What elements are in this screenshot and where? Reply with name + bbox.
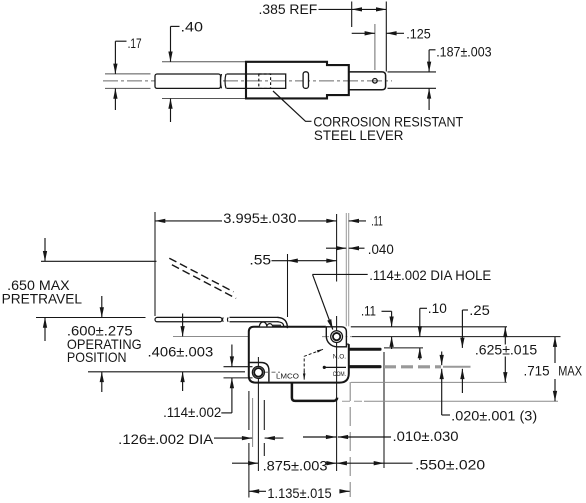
- extension line: hole1 centerline vertical upper: [336, 214, 338, 282]
- lever right segment: [230, 317, 279, 321]
- svg-text:.25: .25: [469, 303, 490, 318]
- svg-text:.126±.002 DIA: .126±.002 DIA: [118, 432, 214, 447]
- dimension .125: [352, 26, 431, 41]
- dimension .10: [420, 301, 447, 360]
- dimension .114±.002 DIA HOLE leader: [313, 268, 492, 330]
- centerline of lever assembly: [103, 80, 392, 82]
- svg-text:.550±.020: .550±.020: [415, 458, 485, 473]
- dimension .020±.001 (3): [442, 352, 538, 424]
- svg-text:.406±.003: .406±.003: [148, 344, 214, 359]
- extension line: terminal1 top right: [384, 347, 423, 349]
- pin hole: [373, 79, 378, 84]
- svg-text:.020±.001 (3): .020±.001 (3): [451, 408, 537, 423]
- svg-text:.55: .55: [249, 253, 271, 268]
- pivot hole (bottom left): [252, 366, 264, 378]
- extension line: pretravel top: [41, 260, 157, 262]
- internal contact dot: [323, 366, 326, 369]
- pin (plunger tip): [349, 72, 386, 90]
- leader corrosion resistant steel lever: [273, 91, 312, 121]
- extension line: body right below (gray dashed): [349, 382, 351, 497]
- terminal2 extension (gray dashed thick): [384, 365, 441, 368]
- terminal COM (bottom hook): [292, 383, 337, 401]
- extension line: hook bottom right (gray): [342, 400, 364, 402]
- lever (operating position) left segment: [155, 317, 222, 321]
- plunger button bumps: [259, 322, 272, 326]
- extension line: hole1 CL left (gray): [173, 336, 249, 338]
- extension line: boss right (gray): [345, 213, 347, 326]
- dimension .40: [162, 19, 245, 122]
- svg-text:.114±.002: .114±.002: [163, 405, 221, 420]
- svg-text:1.135±.015: 1.135±.015: [267, 486, 332, 501]
- svg-text:.11: .11: [361, 304, 376, 319]
- extension line: lever tip vertical: [154, 212, 156, 316]
- hidden square hole (dashed): [259, 74, 271, 88]
- dimension .385 REF: [259, 2, 387, 72]
- svg-text:.625±.015: .625±.015: [475, 343, 538, 358]
- extension line: hole2 centerline vertical: [257, 357, 259, 471]
- crimp rib: [303, 72, 308, 89]
- svg-text:.010±.030: .010±.030: [393, 429, 459, 444]
- svg-text:POSITION: POSITION: [67, 350, 127, 365]
- svg-text:STEEL LEVER: STEEL LEVER: [314, 127, 404, 143]
- svg-text:.17: .17: [128, 36, 142, 51]
- svg-text:3.995±.030: 3.995±.030: [223, 211, 297, 226]
- extension line: body right (gray): [348, 213, 350, 326]
- svg-text:LMCO: LMCO: [276, 374, 300, 381]
- extension line: .126 tangent left (gray): [252, 398, 254, 447]
- top-right mounting boss: [326, 327, 347, 347]
- svg-text:COM.: COM.: [333, 371, 346, 378]
- dimension .11 (top): [349, 213, 383, 228]
- svg-text:PRETRAVEL: PRETRAVEL: [2, 291, 83, 306]
- svg-text:.114±.002 DIA HOLE: .114±.002 DIA HOLE: [369, 268, 491, 283]
- pretravel lever position (dashed): [169, 258, 236, 298]
- dimension 1.135±.015: [249, 486, 350, 501]
- svg-text:.040: .040: [368, 242, 394, 257]
- svg-text:.11: .11: [371, 213, 383, 228]
- extension line: body top right: [351, 326, 507, 328]
- dimension .875±.003: [232, 458, 337, 473]
- pin hole centerline: [374, 24, 376, 70]
- dimension .17: [105, 36, 151, 110]
- dimension .010±.030: [303, 429, 459, 444]
- extension line: .114 tangent bottom: [224, 377, 253, 379]
- internal moving contact (dashed): [304, 350, 321, 377]
- extension line: terminal ends vertical: [383, 352, 385, 468]
- svg-text:.40: .40: [181, 19, 204, 34]
- svg-text:N.O.: N.O.: [333, 354, 346, 361]
- extension line: body left below: [248, 391, 250, 498]
- dimension .25: [462, 303, 490, 393]
- extension line: hole1 CL right: [352, 336, 561, 338]
- dimension 3.995±.030: [155, 211, 337, 226]
- lever bar break marks: [221, 74, 227, 88]
- lever end curl: [278, 317, 288, 328]
- dimension .55: [249, 253, 336, 268]
- svg-text:MAX: MAX: [558, 364, 582, 379]
- extension line: .126 tangent right: [263, 400, 265, 456]
- centerline through hole1 (dashed): [322, 336, 351, 338]
- extension line: hole1 centerline vertical lower: [336, 316, 338, 471]
- switch body outline: [249, 327, 349, 383]
- extension line: .114 tangent top: [224, 366, 253, 368]
- pivot hole centerline dashes: [265, 371, 280, 373]
- dimension .187±.003: [388, 45, 492, 111]
- lever bar left segment: [155, 74, 221, 88]
- lever bar right segment: [227, 74, 286, 88]
- dimension .11 (lower): [361, 304, 392, 350]
- dimension .550±.020: [337, 458, 486, 473]
- svg-text:.187±.003: .187±.003: [436, 45, 492, 60]
- dimension .625±.015: [475, 327, 538, 383]
- svg-text:.10: .10: [428, 301, 447, 316]
- dimension .650 MAX PRETRAVEL: [2, 238, 83, 341]
- extension line: free position: [36, 317, 146, 319]
- dimension .600±.275 OPERATING POSITION: [67, 296, 142, 392]
- extension line: body bottom right (gray): [351, 381, 507, 383]
- svg-text:.385 REF: .385 REF: [259, 2, 318, 17]
- dimension .715 MAX: [524, 337, 583, 402]
- bottom-left pivot boss: [249, 363, 269, 382]
- dimension .040: [326, 242, 394, 257]
- mounting hole .114 DIA (top right): [331, 331, 343, 343]
- dimension .114±.002 (pivot hole height): [163, 345, 232, 420]
- extension line: operating position lower: [88, 371, 245, 373]
- dimension .126±.002 DIA: [118, 432, 283, 447]
- dimension .406±.003: [148, 314, 214, 392]
- svg-text:.125: .125: [406, 26, 431, 41]
- terminal N.O. (top): [349, 348, 382, 351]
- svg-text:.875±.003: .875±.003: [263, 458, 328, 473]
- svg-text:.715: .715: [524, 364, 550, 379]
- clamp (formed holder): [246, 62, 349, 99]
- extension line: lever end (.55): [287, 254, 289, 317]
- terminal N.C. (middle): [349, 365, 382, 368]
